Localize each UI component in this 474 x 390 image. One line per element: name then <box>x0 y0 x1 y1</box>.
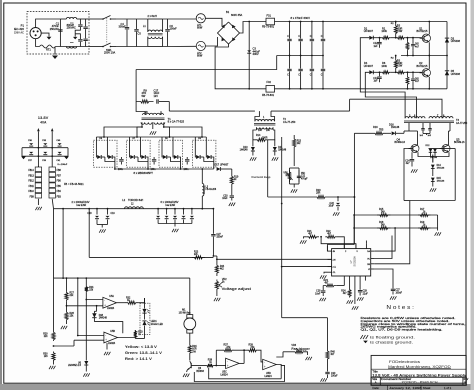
bottom rail <box>275 88 448 90</box>
D9 diode a <box>194 144 196 154</box>
resistor R2 to rail <box>394 56 397 72</box>
capacitor C3x across line <box>85 19 87 26</box>
output rail <box>54 208 214 210</box>
diode D5 freewheel <box>446 56 448 89</box>
svg-text:CA-77-250: CA-77-250 <box>456 122 468 125</box>
Q2 collector to mid node <box>428 56 430 69</box>
svg-text:-: - <box>227 359 228 363</box>
wire R20 to shutdown <box>328 196 354 198</box>
svg-text:is chassis ground.: is chassis ground. <box>370 341 413 345</box>
U7 left pin 1 -IN <box>328 250 332 252</box>
T1 secondary center tap to ground <box>152 122 154 129</box>
svg-text:LM324: LM324 <box>107 308 115 310</box>
Q6 emitter ground <box>186 370 189 372</box>
capacitor C3 bulk <box>248 22 250 89</box>
resistor R14 current sense <box>255 138 268 141</box>
diode D1 <box>369 36 373 40</box>
transistor Q2 <box>405 71 422 73</box>
svg-text:FB-43-206: FB-43-206 <box>206 189 217 191</box>
svg-text:40A: 40A <box>40 120 47 124</box>
svg-text:C29: C29 <box>363 291 368 293</box>
R37 to output node <box>234 349 248 351</box>
R2 top to mid stage2 <box>395 56 397 58</box>
motor supply wire <box>146 277 190 279</box>
resistor R30 <box>52 352 55 362</box>
svg-text:UF5408: UF5408 <box>451 39 461 43</box>
resistor R22 feedback <box>325 235 337 238</box>
svg-text:BC639-16: BC639-16 <box>454 142 465 144</box>
svg-text:F02: F02 <box>267 80 272 84</box>
svg-text:U5C: U5C <box>222 371 227 374</box>
svg-text:330nF: 330nF <box>119 25 127 29</box>
riser from output rail <box>62 209 64 278</box>
terminal risers continue to FB stacks <box>37 148 39 167</box>
cap column x=300.6 <box>300 22 302 89</box>
fan motor M1 <box>184 318 196 330</box>
U7 left pin 2 +IN <box>328 258 332 260</box>
op-amp U5A <box>103 297 117 308</box>
svg-text:-CL: -CL <box>332 272 335 274</box>
EMI filter enclosure (dashed) <box>27 12 89 55</box>
svg-text:FB10: FB10 <box>28 191 34 193</box>
cap C40 pair <box>58 143 62 145</box>
svg-text:FB9: FB9 <box>30 197 35 199</box>
resistor R24 ramp <box>348 289 351 298</box>
R2 top to rail stage1 <box>395 22 397 24</box>
svg-text:D10: D10 <box>243 147 248 149</box>
U7 top pins <box>343 245 345 249</box>
ground below C28 <box>320 298 322 301</box>
diode D17 clamp <box>217 167 221 171</box>
svg-text:U5D: U5D <box>266 372 271 375</box>
LED block (dashed) <box>140 303 150 334</box>
svg-text:BUH1215: BUH1215 <box>417 65 428 68</box>
svg-text:13.8V: 13.8V <box>38 116 49 120</box>
Q4/Q5 emitter junction wires <box>418 152 449 156</box>
ground below R30 <box>53 362 55 365</box>
svg-text:600V 35A: 600V 35A <box>231 13 242 17</box>
base node wire to U5C <box>214 365 226 367</box>
diode D16 <box>386 132 391 134</box>
Y capacitor C2a <box>79 19 81 24</box>
svg-text:BC639-16: BC639-16 <box>395 142 406 144</box>
inner doc box <box>371 377 466 385</box>
svg-text:Manfred Mornhinweg, XQ2FOD: Manfred Mornhinweg, XQ2FOD <box>388 365 451 369</box>
diode D11 <box>274 140 276 147</box>
svg-text:A: A <box>375 381 377 385</box>
capacitor C24 out <box>191 209 193 215</box>
D6 diode b <box>106 144 108 154</box>
svg-text:C28: C28 <box>316 291 321 293</box>
shutdown riser to U7 <box>353 197 355 245</box>
svg-text:Green: 13.8..14.1 V: Green: 13.8..14.1 V <box>125 351 163 355</box>
U7 left pin 3 +CL <box>328 266 332 268</box>
junction R29/R30 to U5B <box>53 345 55 347</box>
svg-text:UF4007: UF4007 <box>364 64 374 68</box>
wire T2 return to half-bridge node <box>349 99 351 111</box>
Q4 collector wire <box>417 131 419 145</box>
wire R32 to LED <box>139 298 145 303</box>
ground below R24 <box>347 300 349 303</box>
op-amp U5B <box>104 332 118 343</box>
svg-text:XQ2FOD - PS40 SCH: XQ2FOD - PS40 SCH <box>402 381 439 385</box>
svg-text:1N4148: 1N4148 <box>437 181 445 183</box>
svg-text:8 x MBR3045PT: 8 x MBR3045PT <box>134 171 154 175</box>
ground R28 <box>66 321 68 324</box>
right stack to output rail <box>52 199 53 209</box>
wire lamps to bridge <box>205 18 222 26</box>
drive bus join <box>404 200 410 202</box>
lamp LP2 <box>196 41 205 50</box>
resistor R25 divider top <box>213 255 217 257</box>
R21/R22 junction riser <box>320 236 322 238</box>
pack input stub wires from bus <box>95 137 97 144</box>
ground below C31 <box>321 378 323 381</box>
resistor R28 <box>65 311 68 321</box>
wire R39 to U5D <box>258 350 263 362</box>
capacitor C22 <box>337 197 339 201</box>
svg-text:R30: R30 <box>43 354 48 356</box>
D6 output join <box>102 156 105 158</box>
svg-text:250V 10A: 250V 10A <box>104 51 115 55</box>
IC U7 SG3525A body <box>332 249 371 276</box>
svg-text:+: + <box>227 364 229 368</box>
thermistor RT1 <box>40 45 56 48</box>
capacitor C28 timing <box>322 286 324 291</box>
filter choke L3 <box>201 169 203 184</box>
chassis ground legend symbol <box>363 341 368 344</box>
motor to R34 <box>189 333 191 344</box>
svg-text:470pF: 470pF <box>301 178 308 180</box>
svg-text:FB6: FB6 <box>57 181 62 183</box>
svg-text:FB4: FB4 <box>57 191 62 193</box>
transistor Q6 (mirrored) <box>189 355 191 361</box>
transformer T1 <box>143 113 164 115</box>
svg-text:R40: R40 <box>331 352 336 354</box>
reference rail riser <box>77 278 79 335</box>
ground below C30 <box>390 296 392 299</box>
resistor R27 <box>66 278 68 291</box>
resistor R34 <box>188 344 191 355</box>
svg-text:FB11: FB11 <box>29 186 35 188</box>
svg-text:+: + <box>105 338 107 342</box>
svg-text:BUH1215: BUH1215 <box>417 30 428 33</box>
capacitor C14 <box>411 152 413 159</box>
junction R27/R28 to U5A +in <box>66 301 68 311</box>
svg-text:Date:: Date: <box>372 386 379 390</box>
capacitor C31 <box>327 362 329 372</box>
T3 small caps C15 C16 <box>421 128 424 130</box>
op-amp U5D <box>263 359 277 369</box>
svg-text:LM324: LM324 <box>108 343 116 345</box>
svg-text:UF4007: UF4007 <box>364 29 374 33</box>
chassis ground of Y caps <box>73 37 77 40</box>
svg-text:60W: 60W <box>197 53 203 57</box>
meter feed riser <box>88 209 90 258</box>
U7 output A wire <box>375 228 395 251</box>
L1 connector stubs <box>147 19 149 32</box>
capacitor C13 <box>379 71 381 73</box>
resistor R23 timing <box>337 285 344 287</box>
svg-text:+: + <box>264 365 266 369</box>
svg-text:is floating ground.: is floating ground. <box>370 335 415 339</box>
T1 secondary out wires <box>141 122 143 127</box>
U7 aux row2 R18 R19b <box>354 227 438 229</box>
sense line entry to -IN <box>327 246 329 251</box>
wire bridge - output to bottom rail <box>215 44 266 89</box>
svg-text:C20: C20 <box>223 196 228 198</box>
resistor R33 <box>135 338 144 340</box>
resistor R20 <box>268 196 314 198</box>
svg-text:1 of 1: 1 of 1 <box>444 386 452 390</box>
cap bank midpoint rail <box>277 55 323 57</box>
svg-text:100uF: 100uF <box>331 376 338 378</box>
svg-text:R13: R13 <box>297 141 302 143</box>
U7 right pin VCC <box>371 268 375 270</box>
svg-text:January 12, 1998: January 12, 1998 <box>389 386 422 390</box>
capacitor C5 <box>136 19 138 29</box>
svg-text:LM336Z-2.5: LM336Z-2.5 <box>68 364 82 367</box>
resistor R19 clamp <box>231 169 233 173</box>
svg-text:SG3525A: SG3525A <box>354 256 357 267</box>
T1 primary right leg <box>168 102 170 112</box>
title block frame <box>371 355 466 385</box>
ground at -CL pin <box>324 272 328 273</box>
VR3 ground <box>305 352 308 355</box>
fan sense riser <box>327 318 329 348</box>
diode D10 <box>252 140 254 147</box>
svg-text:R19: R19 <box>234 177 239 179</box>
aux rows right end ground <box>437 215 439 231</box>
svg-text:FB-73-801: FB-73-801 <box>262 25 275 29</box>
capacitor C30 supply <box>391 288 395 290</box>
svg-text:20R: 20R <box>316 193 321 195</box>
svg-text:C5: C5 <box>138 32 142 36</box>
resistor R3 series <box>390 37 396 39</box>
svg-text:100k: 100k <box>381 29 387 33</box>
chassis arrows on rail ends <box>21 156 26 159</box>
wire bridge + output to top rail <box>240 22 267 34</box>
bias pair R5 <box>407 37 409 39</box>
D7 output join <box>135 156 138 158</box>
U5C feedback riser left <box>215 350 217 365</box>
snubber C17 <box>156 99 158 103</box>
resistor R6 <box>373 71 381 73</box>
T3 bottom pin wires <box>408 123 410 131</box>
current loop to U7 shutdown pin <box>281 266 283 268</box>
switch SW1 pole A <box>103 16 111 20</box>
svg-text:low ESR: low ESR <box>166 203 176 207</box>
svg-text:250VAC: 250VAC <box>50 27 59 31</box>
D18 feedback wire <box>94 322 122 334</box>
svg-text:220V AC: 220V AC <box>14 31 24 34</box>
diode D14 <box>432 155 434 163</box>
svg-text:1kV: 1kV <box>154 94 159 98</box>
current transformer T2 primary <box>255 120 275 122</box>
ground below pin gnd <box>352 306 354 309</box>
resistor R35 base <box>197 365 207 367</box>
snubber cap Cc <box>186 157 188 159</box>
svg-text:FB8: FB8 <box>57 170 62 172</box>
drive feed wire stage2 from T3 <box>365 72 416 118</box>
filter cap row rail A <box>22 147 68 149</box>
bias pair C9 <box>412 71 414 73</box>
fan section return wire <box>209 368 282 379</box>
svg-text:Q4: Q4 <box>397 138 401 142</box>
svg-text:Sheet: Sheet <box>423 386 431 390</box>
svg-text:250VAC: 250VAC <box>67 25 76 29</box>
ground D10 <box>252 152 254 156</box>
cap C38 pair <box>43 143 47 145</box>
svg-text:-: - <box>105 333 106 337</box>
chassis ground below EMI box <box>54 47 56 55</box>
wire EMI box to switch <box>89 18 103 20</box>
LED1b <box>144 314 146 320</box>
svg-text:100uF: 100uF <box>396 292 403 294</box>
svg-text:60W: 60W <box>197 26 203 30</box>
bias pair R5 <box>407 71 409 73</box>
svg-text:low ESR: low ESR <box>77 203 87 207</box>
drive transformer T3 <box>405 117 425 119</box>
R22 to U7 top pin <box>337 237 344 249</box>
base drive wires from U7 outputs <box>404 149 411 159</box>
U7 VC wire <box>375 236 392 259</box>
svg-text:R24: R24 <box>341 291 346 293</box>
connector P1 IEC-320 <box>30 27 41 38</box>
svg-text:7R5: 7R5 <box>379 130 384 132</box>
rectifier output bus <box>115 168 214 170</box>
ground below C29 <box>357 297 359 300</box>
svg-text:C21: C21 <box>301 176 306 178</box>
drive bus A down to U7 area <box>403 158 405 201</box>
svg-text:10nF: 10nF <box>315 293 321 295</box>
svg-text:D11: D11 <box>278 147 283 149</box>
stage1 bias resistor bottoms to mid rail <box>407 51 409 56</box>
Q2 emitter to bottom rail <box>428 77 430 89</box>
svg-text:Voltage adjust: Voltage adjust <box>222 287 253 291</box>
svg-text:LED1: LED1 <box>151 321 158 323</box>
U5B ground <box>106 343 108 350</box>
svg-text:FB7: FB7 <box>57 175 62 177</box>
svg-text:C27: C27 <box>396 290 401 292</box>
svg-text:FB5: FB5 <box>57 186 62 188</box>
svg-text:R34: R34 <box>192 346 197 348</box>
filter cap row rail B <box>22 155 68 157</box>
svg-text:400V: 400V <box>253 52 259 56</box>
U7 aux supply resistors R15 R17 row1 <box>354 214 438 216</box>
half-bridge mid rail <box>401 55 447 57</box>
sense line to meter section <box>89 256 213 258</box>
U7 right pin VC <box>371 258 375 260</box>
sense line to error amp <box>217 258 332 260</box>
svg-text:FB-73-801: FB-73-801 <box>262 93 275 97</box>
D7 diode a <box>129 144 131 154</box>
sense node junction <box>213 255 215 257</box>
svg-text:35C: 35C <box>301 173 306 175</box>
zener U6 LM336-2.5 <box>85 292 87 299</box>
svg-text:1uF: 1uF <box>373 80 378 82</box>
sense wire into +IN <box>217 258 332 260</box>
diode D18 <box>96 305 98 307</box>
VR3 wiper wire <box>283 351 293 353</box>
drive feed wire stage1 from T3 <box>360 38 405 119</box>
svg-text:FB3: FB3 <box>57 197 62 199</box>
drive bus B down to U7 area <box>454 149 456 201</box>
resistor R3 series <box>390 71 396 73</box>
svg-text:R14: R14 <box>256 134 261 137</box>
svg-text:100nF: 100nF <box>170 27 178 31</box>
svg-text:FB12: FB12 <box>28 181 34 183</box>
top rail +320V <box>275 21 448 23</box>
svg-text:UF5408: UF5408 <box>451 72 461 76</box>
snubber cap Cb <box>153 157 155 159</box>
resistor R16 <box>372 132 386 135</box>
svg-text:R28: R28 <box>70 313 75 315</box>
lamp LP1 <box>196 14 205 23</box>
pot VR2 voltage adjust <box>215 280 218 292</box>
D8 diode b <box>172 144 174 154</box>
LED1a <box>144 298 146 309</box>
svg-text:1N4148: 1N4148 <box>391 127 400 129</box>
svg-text:IEC-320: IEC-320 <box>14 27 25 31</box>
T1 primary feed from cap midpoint <box>136 56 277 70</box>
ground below C20 <box>229 203 231 206</box>
svg-text:+: + <box>104 303 106 307</box>
svg-text:22uF: 22uF <box>363 293 369 295</box>
L3 to output rail <box>201 196 203 209</box>
svg-text:10uF: 10uF <box>222 198 228 200</box>
U5B input wires <box>73 340 75 346</box>
capacitor C21 out <box>166 209 168 215</box>
svg-text:R29: R29 <box>43 334 48 336</box>
T2 core <box>254 123 275 125</box>
svg-text:RT1: RT1 <box>46 48 51 52</box>
cap column x=323.0 <box>322 22 324 89</box>
svg-text:C22: C22 <box>330 203 335 205</box>
feedback bus bottom <box>282 317 328 319</box>
svg-text:100 MA fan: 100 MA fan <box>179 311 191 314</box>
transistor Q1 <box>405 37 422 39</box>
current loop lower wire <box>267 140 269 197</box>
rectifier pack D8 (dashed box) <box>159 140 183 167</box>
D6 diode a <box>95 144 97 154</box>
U7 right pin OA <box>371 250 375 252</box>
svg-text:8 x CA-77-525: 8 x CA-77-525 <box>168 120 185 124</box>
title block rule 1 <box>371 368 466 370</box>
svg-text:tricolor LED: tricolor LED <box>151 323 163 326</box>
svg-text:1N4148: 1N4148 <box>99 318 108 320</box>
D8 output join <box>167 156 170 158</box>
ground below VR2 <box>216 291 218 296</box>
Q1 collector to top rail <box>428 22 430 35</box>
current loop riser <box>281 140 283 318</box>
svg-text:FB14: FB14 <box>28 170 34 172</box>
ground below D15 <box>432 182 434 187</box>
svg-text:1N4148: 1N4148 <box>437 168 445 170</box>
resistor R39 <box>248 349 258 352</box>
fan section return wire <box>194 365 284 381</box>
U7 bottom pins <box>343 276 345 286</box>
svg-text:FODelectronics: FODelectronics <box>389 360 420 364</box>
svg-text:-: - <box>104 298 105 302</box>
common-mode choke L01 <box>60 18 66 20</box>
svg-text:CA-77-250: CA-77-250 <box>283 120 296 124</box>
output sense riser C27 <box>212 209 214 234</box>
resistor R13 <box>281 137 283 140</box>
ground under C18/C19 <box>97 224 108 226</box>
svg-text:R20: R20 <box>316 189 321 192</box>
resistor R2 to rail <box>394 22 397 38</box>
